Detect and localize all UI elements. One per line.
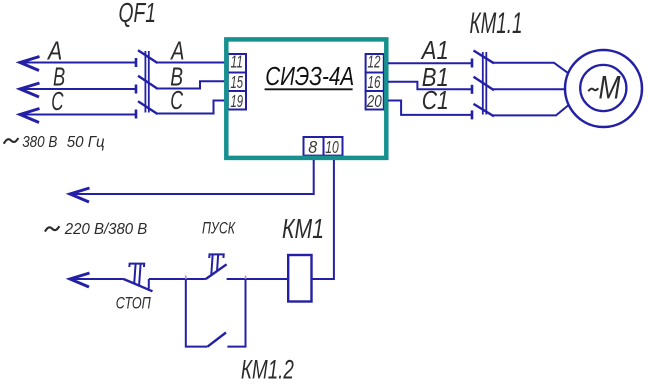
contact KM1.2 blade bbox=[208, 333, 226, 347]
wire phase B incoming bbox=[20, 88, 136, 90]
svg-text:16: 16 bbox=[368, 72, 381, 92]
pin box 15 bbox=[228, 73, 246, 92]
svg-text:220 В/380 В: 220 В/380 В bbox=[64, 221, 148, 238]
contactor KM1.1 pole A1 fixed contact bbox=[471, 59, 474, 68]
arrow on 220V feed bbox=[70, 188, 90, 202]
pin box 8 bbox=[304, 137, 324, 156]
wire B1 to motor bbox=[493, 88, 566, 90]
pin box 20 bbox=[366, 91, 384, 110]
svg-text:СИЭЗ-4А: СИЭЗ-4А bbox=[265, 63, 354, 91]
contactor KM1.1 pole C1 fixed contact bbox=[471, 110, 474, 119]
contactor KM1.1 pole B1 fixed contact bbox=[471, 85, 474, 94]
svg-text:19: 19 bbox=[231, 91, 244, 111]
wire from pin 10 to coil bbox=[312, 160, 334, 279]
svg-text:10: 10 bbox=[325, 137, 339, 157]
svg-text:QF1: QF1 bbox=[119, 0, 157, 28]
svg-text:20: 20 bbox=[366, 91, 382, 111]
breaker QF1 pole C fixed contact bbox=[135, 110, 138, 119]
svg-text:11: 11 bbox=[231, 51, 244, 71]
svg-text:50 Гц: 50 Гц bbox=[67, 134, 105, 151]
motor M inner circle bbox=[580, 65, 626, 111]
underline of СиЭЗ-4А bbox=[265, 88, 353, 90]
svg-text:КМ1: КМ1 bbox=[282, 213, 324, 244]
junction left of ПУСК bbox=[185, 276, 187, 280]
node A arrow bbox=[20, 57, 40, 71]
contactor KM1.1 pole C1 blade bbox=[474, 104, 495, 117]
contactor KM1.1 pole B1 blade bbox=[474, 77, 495, 91]
breaker QF1 pole B blade bbox=[138, 76, 158, 89]
wire phase A incoming bbox=[20, 62, 136, 64]
wire phase C incoming bbox=[20, 114, 136, 116]
svg-text:A: A bbox=[46, 37, 62, 65]
wire A1 from pin 12 bbox=[388, 62, 472, 64]
svg-text:12: 12 bbox=[368, 51, 381, 71]
svg-text:A: A bbox=[170, 37, 185, 65]
svg-text:КМ1.1: КМ1.1 bbox=[470, 7, 523, 40]
svg-text:C1: C1 bbox=[422, 85, 449, 115]
controller box U1 СиЭЗ-4А bbox=[226, 39, 386, 157]
breaker QF1 pole A fixed contact bbox=[135, 58, 138, 67]
arrow on control line bbox=[70, 273, 90, 287]
pin box 19 bbox=[228, 91, 246, 110]
button ПУСК plunger bbox=[208, 254, 224, 274]
svg-text:A1: A1 bbox=[420, 35, 449, 65]
wire phase B to pin 15 bbox=[156, 81, 228, 88]
svg-text:15: 15 bbox=[231, 72, 244, 92]
contactor KM1.1 mechanical linkage bbox=[483, 52, 487, 115]
breaker QF1 pole C blade bbox=[138, 101, 158, 114]
node C arrow bbox=[20, 109, 40, 123]
node B arrow bbox=[20, 83, 40, 97]
pin box 11 bbox=[228, 54, 246, 73]
button ПУСК blade bbox=[206, 264, 227, 279]
wire A1 to motor bbox=[493, 63, 571, 75]
wire B1 from pin 16 bbox=[388, 82, 472, 90]
label ~ 380 В 50 Гц bbox=[4, 138, 18, 144]
wire СТОП to ПУСК bbox=[149, 278, 206, 280]
wire phase C to pin 19 bbox=[156, 101, 228, 114]
svg-text:C: C bbox=[51, 88, 64, 116]
svg-text:C: C bbox=[170, 87, 183, 115]
pin box 16 bbox=[366, 73, 384, 92]
wire phase A to pin 11 bbox=[156, 62, 228, 64]
pin box 12 bbox=[366, 54, 384, 73]
svg-text:8: 8 bbox=[308, 137, 317, 157]
button СТОП plunger bbox=[128, 264, 144, 286]
wire from pin 8 bbox=[70, 160, 314, 194]
coil KM1 bbox=[288, 255, 311, 302]
breaker QF1 mechanical linkage bbox=[145, 51, 148, 113]
svg-text:380 В: 380 В bbox=[22, 134, 57, 151]
breaker QF1 pole A blade bbox=[138, 50, 158, 63]
wire C1 to motor bbox=[493, 104, 571, 116]
wire C1 from pin 20 bbox=[388, 101, 472, 115]
junction right of ПУСК bbox=[245, 276, 247, 280]
wire ПУСК to coil KM1 bbox=[227, 278, 289, 280]
button СТОП fixed contact stub bbox=[148, 279, 150, 289]
wire KM1.2 branch left bbox=[186, 279, 208, 347]
contactor KM1.1 pole A1 blade bbox=[474, 51, 495, 64]
label ~M bbox=[588, 88, 598, 91]
button СТОП blade bbox=[124, 279, 153, 291]
svg-text:M: M bbox=[599, 69, 621, 105]
svg-text:КМ1.2: КМ1.2 bbox=[241, 355, 294, 385]
wire KM1.2 branch right bbox=[227, 279, 245, 347]
label ~ 220 В/380 В bbox=[45, 226, 59, 231]
motor M outer circle bbox=[565, 50, 642, 127]
wire control line left bbox=[70, 278, 124, 280]
svg-text:СТОП: СТОП bbox=[116, 295, 151, 313]
pin box 10 bbox=[324, 137, 343, 156]
breaker QF1 pole B fixed contact bbox=[135, 85, 138, 94]
svg-text:ПУСК: ПУСК bbox=[202, 220, 236, 238]
